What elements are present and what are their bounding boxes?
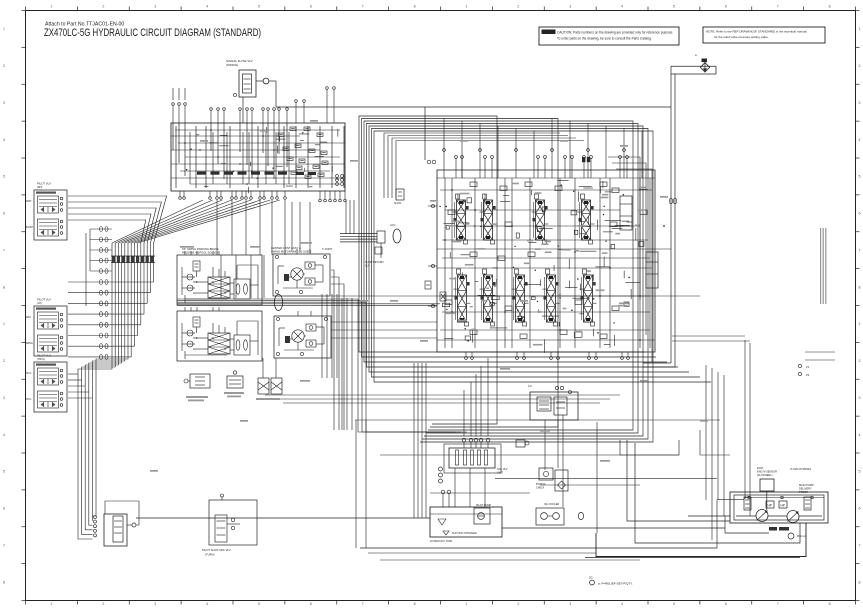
svg-text:HP: HP [781, 504, 785, 508]
svg-text:4: 4 [206, 5, 208, 9]
svg-text:PILOT SHUT-OFF VLV: PILOT SHUT-OFF VLV [202, 548, 231, 552]
svg-text:7: 7 [3, 248, 5, 252]
svg-text:1: 1 [465, 602, 467, 606]
svg-text:7: 7 [362, 5, 364, 9]
svg-text:6: 6 [859, 507, 861, 511]
svg-text:3: 3 [859, 101, 861, 105]
svg-text:OIL COOLER: OIL COOLER [544, 503, 559, 506]
svg-text:2: 2 [3, 64, 5, 68]
svg-text:ARM: ARM [25, 316, 31, 319]
svg-text:1: 1 [465, 5, 467, 9]
svg-text:8: 8 [414, 602, 416, 606]
svg-text:BOOM: BOOM [25, 226, 33, 229]
svg-text:SLOW: SLOW [394, 202, 402, 205]
svg-text:NOTE: Refer to the REF DRAWING: NOTE: Refer to the REF DRAWING(F. STANDA… [706, 30, 807, 34]
svg-text:CAUTION: Parts numbers on the: CAUTION: Parts numbers on the drawing ar… [557, 31, 673, 35]
svg-text:(TURN): (TURN) [205, 553, 215, 557]
svg-text:ENG N-SENSOR: ENG N-SENSOR [757, 470, 777, 474]
svg-text:4.9: 4.9 [528, 384, 532, 388]
svg-text:To order parts on the drawing,: To order parts on the drawing, be sure t… [557, 37, 652, 41]
svg-text:SUCTION STRAINER: SUCTION STRAINER [452, 532, 477, 535]
svg-text:1: 1 [3, 27, 5, 31]
svg-text:3: 3 [569, 5, 571, 9]
svg-text:1: 1 [50, 602, 52, 606]
svg-text:(RH): (RH) [37, 186, 42, 189]
svg-text:ACC: ACC [390, 223, 396, 227]
svg-text:6: 6 [310, 5, 312, 9]
svg-text:CHECK: CHECK [536, 487, 545, 490]
svg-text:7: 7 [362, 602, 364, 606]
svg-text:4: 4 [621, 5, 623, 9]
svg-text:a: P=RELIEF-SET-P/QTY.: a: P=RELIEF-SET-P/QTY. [598, 582, 633, 586]
svg-text:5: 5 [859, 470, 861, 474]
svg-text:DC: DC [589, 576, 593, 580]
svg-text:2: 2 [3, 359, 5, 363]
svg-text:1: 1 [50, 5, 52, 9]
svg-text:5: 5 [673, 5, 675, 9]
svg-text:PILOT VLV: PILOT VLV [37, 298, 51, 302]
svg-text:2: 2 [102, 602, 104, 606]
svg-text:(TJ,EM OT3500H): (TJ,EM OT3500H) [790, 467, 811, 471]
svg-text:6: 6 [3, 507, 5, 511]
svg-text:5: 5 [3, 175, 5, 179]
svg-text:7: 7 [3, 543, 5, 547]
svg-text:6: 6 [725, 5, 727, 9]
svg-text:Pilot rel: Pilot rel [797, 535, 806, 538]
svg-text:2: 2 [517, 602, 519, 606]
svg-text:3: 3 [859, 396, 861, 400]
svg-text:8: 8 [414, 5, 416, 9]
svg-text:SWNG: SWNG [25, 342, 33, 345]
svg-text:3: 3 [569, 602, 571, 606]
svg-text:2: 2 [859, 64, 861, 68]
svg-text:UNIT: UNIT [497, 471, 503, 475]
svg-text:(FLYWHEEL): (FLYWHEEL) [757, 473, 773, 477]
svg-text:(TRVL): (TRVL) [37, 358, 45, 361]
svg-text:8: 8 [829, 602, 831, 606]
svg-text:HP: HP [768, 504, 772, 508]
svg-text:5: 5 [258, 5, 260, 9]
svg-text:5: 5 [673, 602, 675, 606]
svg-text:7: 7 [859, 543, 861, 547]
svg-text:DELIVERY: DELIVERY [799, 487, 812, 491]
svg-text:ZX470LC-5G HYDRAULIC CIRCUIT: ZX470LC-5G HYDRAULIC CIRCUIT DIAGRAM (ST… [44, 27, 261, 39]
svg-text:1: 1 [859, 27, 861, 31]
svg-text:5: 5 [859, 175, 861, 179]
svg-text:P1: P1 [806, 365, 810, 369]
svg-text:P2: P2 [806, 373, 810, 377]
svg-text:PRESS: PRESS [799, 490, 808, 494]
svg-text:3: 3 [154, 602, 156, 606]
svg-text:4: 4 [3, 433, 5, 437]
svg-text:MAIN PUMP: MAIN PUMP [799, 483, 814, 487]
svg-text:5: 5 [258, 602, 260, 606]
svg-text:2: 2 [517, 5, 519, 9]
svg-text:2: 2 [859, 359, 861, 363]
svg-text:2: 2 [102, 5, 104, 9]
svg-text:7: 7 [777, 5, 779, 9]
svg-text:6: 6 [3, 212, 5, 216]
svg-text:T-JOINT: T-JOINT [322, 247, 333, 251]
svg-text:SOL VLV: SOL VLV [497, 467, 508, 471]
svg-text:6: 6 [859, 212, 861, 216]
svg-text:4: 4 [3, 138, 5, 142]
svg-text:3: 3 [3, 101, 5, 105]
svg-text:7: 7 [777, 602, 779, 606]
svg-text:1: 1 [3, 322, 5, 326]
svg-text:8: 8 [3, 285, 5, 289]
svg-text:4: 4 [859, 138, 861, 142]
svg-text:3: 3 [154, 5, 156, 9]
svg-text:8: 8 [859, 285, 861, 289]
svg-text:ECM,: ECM, [757, 466, 764, 470]
svg-text:TRVL: TRVL [25, 398, 32, 401]
svg-text:4: 4 [621, 602, 623, 606]
svg-text:7: 7 [859, 248, 861, 252]
svg-text:SWING MOTOR UNIT (x2 USED): SWING MOTOR UNIT (x2 USED) [271, 250, 311, 254]
svg-text:PILOT VLV: PILOT VLV [37, 182, 51, 186]
svg-text:(SWING): (SWING) [226, 63, 238, 67]
svg-text:for the relief valve pressure: for the relief valve pressure setting va… [714, 35, 769, 39]
svg-text:PILOT VLV: PILOT VLV [37, 354, 51, 358]
svg-text:3: 3 [3, 396, 5, 400]
svg-text:CENTER JOINT ASSY &: CENTER JOINT ASSY & [271, 246, 301, 250]
svg-text:(LH): (LH) [37, 302, 42, 305]
svg-text:8: 8 [859, 580, 861, 584]
svg-text:HYDRAULIC TANK: HYDRAULIC TANK [430, 539, 453, 543]
svg-text:6: 6 [725, 602, 727, 606]
svg-text:PILOT PUMP: PILOT PUMP [476, 504, 491, 507]
svg-text:1: 1 [859, 322, 861, 326]
svg-text:4: 4 [206, 602, 208, 606]
svg-text:6: 6 [310, 602, 312, 606]
svg-text:8: 8 [3, 580, 5, 584]
svg-text:5: 5 [3, 470, 5, 474]
svg-text:FRNT: FRNT [25, 200, 32, 203]
svg-text:TRVL: TRVL [25, 372, 32, 375]
svg-text:4: 4 [859, 433, 861, 437]
svg-text:VLV: VLV [365, 265, 370, 268]
svg-text:8: 8 [829, 5, 831, 9]
